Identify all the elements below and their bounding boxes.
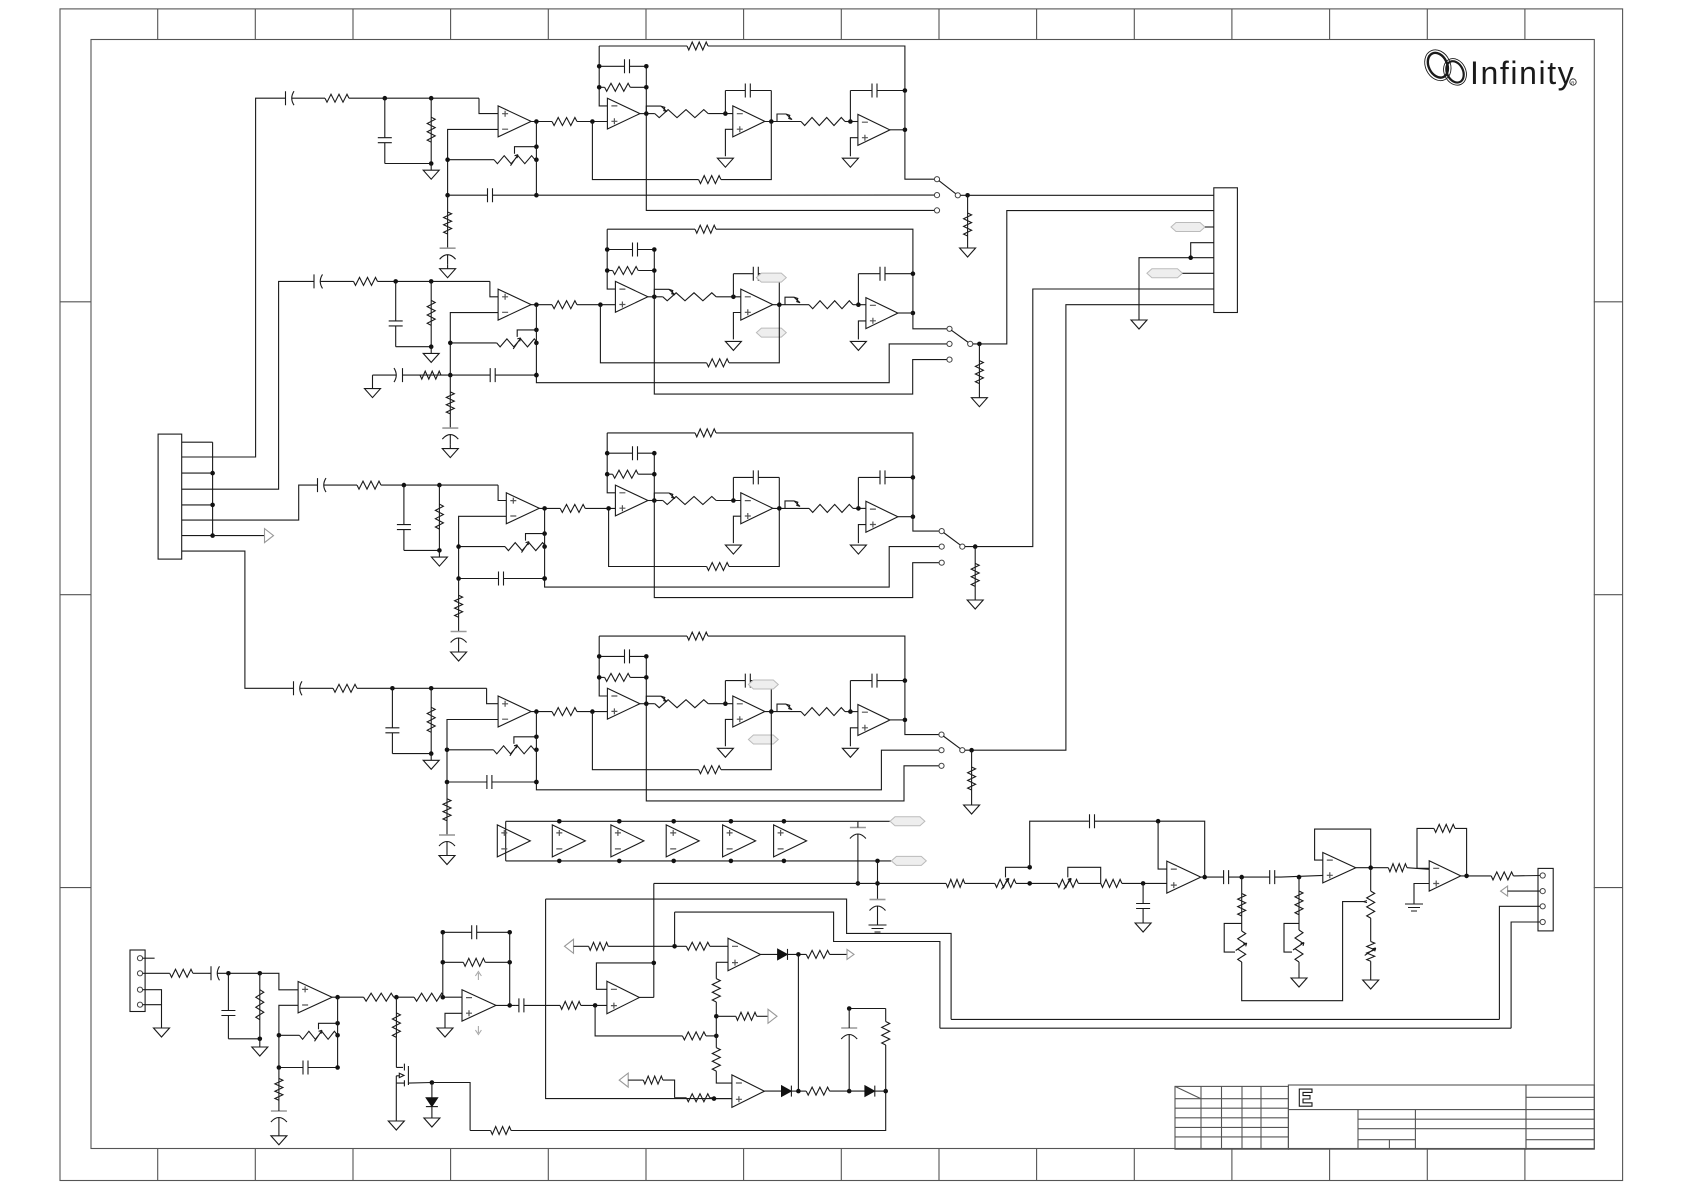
resistor R-B1 series — [414, 993, 444, 1001]
capacitor CB4 polarized — [442, 427, 458, 429]
node C cap row — [542, 576, 547, 581]
wire A1col down — [1242, 902, 1364, 1001]
ground A input RC — [423, 164, 439, 180]
ground B chain — [442, 444, 458, 458]
wire A op-amp2 fb res r — [630, 86, 646, 88]
node bottom corner — [883, 1089, 888, 1094]
capacitor CB7 op-amp4 fb — [858, 267, 913, 281]
wire A R10 lead — [782, 121, 801, 123]
wire C lower fb — [609, 508, 707, 566]
capacitor C-E2 shunt — [1136, 883, 1150, 919]
wire bottom rail left — [470, 1130, 491, 1132]
capacitor CB3 feedback — [450, 368, 536, 382]
wire B fb res leads — [443, 961, 464, 963]
wire B mid throw feed — [536, 344, 947, 383]
wire E out 3 — [1281, 875, 1323, 877]
wire C5 to C1 — [710, 945, 728, 947]
ground C input RC — [431, 550, 447, 566]
ground A chain — [440, 264, 456, 278]
junction J2 pin4-5 — [1188, 255, 1193, 260]
wire A chain — [447, 195, 449, 248]
op-amp UA3 — [733, 106, 765, 137]
wire diode leads — [431, 1083, 433, 1098]
wire channel D input feed — [182, 551, 292, 688]
wire D bottom throw feed — [646, 704, 939, 801]
op-amp UC2 — [615, 485, 648, 516]
wiper arrow B R10 — [794, 297, 800, 303]
wire Fcol down — [1370, 961, 1372, 976]
ground D chain — [439, 851, 455, 865]
wire C fb trim wiper tap — [526, 534, 545, 541]
wire bias to chain — [706, 1035, 716, 1037]
op-amp U-B — [462, 990, 496, 1021]
wire D lower fb — [592, 712, 698, 770]
wire J4 pin4 — [1511, 922, 1540, 1028]
junction buffer tap cross — [875, 881, 880, 886]
resistor RB11 lower fb — [707, 359, 729, 367]
wire A op-amp4 out — [890, 129, 905, 131]
node F out — [1368, 865, 1373, 870]
capacitor CA2 shunt — [378, 98, 392, 163]
wire B op-amp4 noninv — [858, 321, 866, 340]
wire D to op-amp4 — [845, 711, 858, 713]
node B op-amp4 in — [856, 302, 861, 307]
switch SC throw mid — [939, 544, 944, 549]
wire C8 leads — [675, 1097, 687, 1099]
node B input RC 1 — [393, 279, 398, 284]
connector J1 body — [158, 434, 182, 559]
node D-C2 — [796, 1089, 801, 1094]
node A1 — [1239, 875, 1244, 880]
wiper arrow D R10 — [786, 704, 792, 710]
connector J4 pin 3 — [1540, 904, 1545, 909]
resistor RD12 to ground — [968, 767, 976, 790]
ground B input RC — [423, 347, 439, 363]
wire B op-amp3 out — [773, 304, 790, 306]
wire net912 corner — [674, 912, 676, 946]
wire A lower fb right — [721, 122, 771, 180]
switch SB blade — [951, 330, 968, 342]
wire D op-amp2 out — [640, 703, 646, 705]
wire A op-amp3 out — [765, 121, 782, 123]
wire A top throw feed — [905, 132, 935, 180]
junctions A fb column — [445, 157, 450, 162]
node chain mid — [714, 1034, 719, 1039]
wire G out — [1461, 875, 1491, 877]
node A input RC 2 — [429, 96, 434, 101]
wire A bottom throw feed — [646, 114, 934, 211]
wire C op-amp2 fb res — [607, 473, 612, 475]
resistor RB5 to vcc2 — [446, 392, 454, 414]
wire Fcol mid — [1370, 918, 1372, 941]
wire A lower fb — [592, 122, 698, 180]
ground A switch — [960, 248, 976, 257]
wire J1 pin 5 — [182, 504, 213, 506]
wire B global fb top left — [607, 228, 695, 230]
junctions A fb — [277, 1033, 282, 1038]
wire B common out — [973, 211, 1214, 344]
earth ground G — [1405, 900, 1423, 911]
wire B bottom throw feed — [654, 297, 947, 394]
wire B noninv — [445, 1013, 462, 1024]
port arrow ref2 — [619, 1073, 628, 1087]
resistor RB1 input series — [354, 277, 378, 285]
wire in RC bottom — [228, 1038, 259, 1040]
node D-C3 in — [847, 1089, 852, 1094]
wire D op-amp2 out lead — [646, 703, 655, 705]
capacitor C-B2 output — [515, 998, 531, 1012]
wire A op-amp3 fb right — [770, 91, 772, 122]
connector J3 pin 4 — [137, 1002, 142, 1007]
junctions A op-amp2 fb — [597, 64, 602, 69]
wiper arrow A R10 — [786, 114, 792, 120]
wire B op-amp2 inv — [607, 229, 615, 289]
resistor R-C3 tap — [736, 1012, 757, 1020]
capacitor CD7 op-amp4 fb — [850, 674, 905, 688]
wire C op-amp1 inv input — [459, 516, 507, 578]
junctions D op-amp2 fb — [597, 654, 602, 659]
wire C chain — [458, 579, 460, 632]
wire J2 pin5 — [1139, 258, 1214, 316]
wire input row D — [310, 687, 333, 689]
wire diode to gnd — [431, 1107, 433, 1114]
wire J3 pin2 out — [143, 972, 170, 974]
ground C switch — [967, 600, 983, 609]
op-amp U-F — [1323, 853, 1356, 883]
wire D op-amp1 output — [531, 711, 552, 713]
wire B fb trim wiper tap — [517, 330, 536, 337]
wiper arrow C R8 — [669, 493, 675, 499]
wire input row D to node — [357, 687, 487, 689]
wire B fb trim left — [450, 342, 496, 344]
wire C op-amp2 out lead — [654, 500, 663, 502]
resistor R-Fcol — [1367, 891, 1375, 918]
wire C op-amp2 inv — [607, 433, 615, 493]
node E in — [1141, 881, 1146, 886]
wire E fb right — [1158, 821, 1205, 877]
junctions D op-amp4 — [903, 678, 908, 683]
wire in shunt res — [259, 973, 261, 1039]
wire A global fb top right — [708, 46, 905, 91]
wire B to op-amp1 — [490, 281, 498, 296]
wire A fb trim wiper tap — [515, 147, 537, 154]
wiper arrow R-Fcol — [1364, 901, 1368, 903]
junctions buffer top rail — [557, 819, 562, 824]
resistor R-C4 — [589, 942, 609, 950]
resistor RD7 global fb — [687, 632, 708, 640]
wire D lower fb right — [721, 712, 771, 770]
resistor RB6 op-amp2 fb — [613, 267, 639, 275]
wire B op-amp3 fb left — [732, 274, 734, 297]
resistor R-A3 — [275, 1078, 283, 1100]
resistor R-A2col — [1295, 891, 1303, 915]
wire C op-amp4 noninv — [858, 525, 866, 544]
wire C to op-amp4 — [853, 507, 866, 509]
wire channel B input feed — [182, 281, 313, 489]
trimmer RA4 op-amp1 feedback — [494, 155, 535, 166]
wire B fb trim jog — [536, 342, 537, 344]
wire in to op-amp A — [260, 973, 298, 990]
net label B pill upper — [756, 273, 786, 282]
wire E2 to E3 — [1016, 882, 1057, 884]
capacitor CD3 feedback — [447, 775, 536, 789]
resistor R-C9 — [806, 1087, 829, 1095]
capacitor CA1 input coupling — [284, 91, 302, 105]
resistor RB10 series — [809, 301, 853, 309]
ground B noninv — [437, 1024, 453, 1037]
capacitor CA7 op-amp4 fb — [850, 84, 905, 98]
wire G fb left — [1417, 828, 1434, 868]
junction B common — [977, 342, 982, 347]
switch SD blade — [943, 736, 960, 749]
wire D fb trim left — [447, 749, 493, 751]
connector J2 body — [1214, 188, 1238, 313]
wire D RC bottom — [392, 753, 431, 755]
net label buffer bottom — [891, 856, 926, 865]
trimmer R-E2 — [995, 878, 1016, 889]
wire ref rail 912 — [675, 912, 940, 1028]
connector J3 pin 3 — [137, 987, 142, 992]
wire C op-amp3 fb right — [778, 477, 780, 508]
resistor RA1 input series — [325, 94, 349, 102]
wire D op-amp4 noninv — [850, 728, 858, 747]
diode D-C3 — [865, 1086, 875, 1097]
capacitor CD6 op-amp3 fb — [725, 674, 771, 688]
port arrow J4 pin2 — [1501, 886, 1508, 896]
resistor RB2 shunt — [427, 300, 435, 325]
capacitor C-B1 fb — [443, 925, 510, 939]
wire C shunt res lead — [438, 485, 440, 550]
node B input RC 2 — [429, 279, 434, 284]
net label J2 pin3 — [1171, 223, 1205, 232]
wire A op-amp1 output — [531, 121, 552, 123]
connector J4 body — [1538, 868, 1553, 931]
junction peak left — [847, 1006, 852, 1011]
resistor RD5 to vcc2 — [443, 799, 451, 821]
capacitor CD1 input coupling — [292, 681, 310, 695]
wire B op-amp2 out jog — [654, 289, 669, 297]
wire C op-amp3 noninv — [733, 516, 740, 543]
node A cap row — [534, 193, 539, 198]
junctions C op-amp2 fb — [605, 451, 610, 456]
wire A2 trim loop — [1284, 923, 1299, 952]
capacitor CC7 op-amp4 fb — [858, 470, 913, 484]
wire ref1 to corner — [608, 945, 686, 947]
wire A shunt res lead — [430, 98, 432, 163]
node E out — [1202, 875, 1207, 880]
wire channel C input feed — [182, 485, 316, 520]
resistor R-G1 fb — [1434, 824, 1455, 832]
earth ground ref — [869, 921, 887, 932]
wire C fb trim left — [459, 546, 505, 548]
wire A op-amp3 noninv — [725, 129, 732, 156]
wire C op-amp2 out — [648, 500, 654, 502]
wire A to op-amp1 — [479, 98, 498, 113]
wire C res leads — [974, 547, 976, 600]
wire A1 trim loop — [1224, 923, 1242, 952]
node C op-amp2 out — [652, 498, 657, 503]
junctions C op-amp4 — [911, 475, 916, 480]
wire D fb trim wiper tap — [514, 737, 537, 744]
op-amp UD3 — [733, 696, 765, 727]
wire G to J4 — [1513, 875, 1540, 877]
connector J3 body — [130, 950, 145, 1012]
node chain tap — [714, 1014, 719, 1019]
wire bottom rail long — [511, 1091, 886, 1130]
wire buffer bottom rail — [506, 860, 892, 862]
op-amp U-buf6 — [774, 825, 807, 857]
resistor R-C8 — [686, 1094, 710, 1102]
op-amp U-A — [298, 982, 332, 1013]
wire ref2 lead — [628, 1079, 643, 1081]
node A op-amp4 in — [848, 119, 853, 124]
resistor R-D2 bias — [682, 1032, 706, 1040]
capacitor C-in1 — [208, 966, 228, 980]
capacitor CA3 feedback — [448, 188, 537, 202]
resistor R-A1col — [1238, 894, 1246, 917]
wire A op-amp2 fb right — [645, 66, 647, 113]
wire peak right vert2 — [885, 1045, 887, 1091]
wire peak right vert — [885, 1009, 887, 1022]
resistor RC3 series — [560, 504, 585, 512]
wire B RC bottom — [396, 346, 432, 348]
wire J4 pin3 — [1499, 906, 1540, 1019]
resistor RB3 series — [552, 301, 577, 309]
op-amp U-G — [1429, 861, 1461, 891]
junction A RC bottom — [429, 161, 434, 166]
wiper arrow D R8 — [661, 696, 667, 702]
wire B R10 lead — [790, 304, 809, 306]
op-amp UA1 — [498, 106, 531, 137]
net label D pill upper — [748, 680, 778, 689]
wire chain mid — [715, 1002, 717, 1048]
ground J2 — [1131, 316, 1147, 329]
wire D-C3 out — [875, 1090, 886, 1092]
wire buffer bottom tap down — [877, 861, 879, 899]
node D op-amp3 out — [769, 709, 774, 714]
wire V1 down — [395, 997, 397, 1037]
op-amp U-buf5 — [723, 825, 756, 857]
node D op-amp1 out — [534, 709, 539, 714]
wire B to op-amp4 — [853, 304, 866, 306]
op-amp UD4 — [858, 705, 890, 736]
node B cap row left — [448, 373, 453, 378]
capacitor CB8 aux — [391, 368, 412, 382]
wire C op-amp2 fb right — [653, 453, 655, 500]
wire to op-amp B — [444, 996, 462, 998]
resistor R-in1 — [170, 969, 193, 977]
ground C op-amp3 — [725, 545, 741, 554]
node A op-amp3 out — [769, 119, 774, 124]
node V1 — [394, 995, 399, 1000]
diode D-Q1 clamp — [426, 1098, 438, 1107]
switch SC common — [960, 544, 965, 549]
wire C op-amp3 out — [773, 507, 790, 509]
wire ref1 lead — [574, 945, 589, 947]
wire D op-amp2 fb res r — [630, 676, 646, 678]
wire B op-amp4 fb right — [912, 274, 914, 313]
switch SA throw bottom — [934, 208, 939, 213]
wire C op-amp3 out jog — [785, 501, 794, 509]
capacitor CC4 polarized — [451, 631, 467, 633]
resistor R-B2 fb — [463, 958, 485, 966]
node D cap row — [534, 780, 539, 785]
junction B RC bottom — [429, 344, 434, 349]
trimmer RD4 op-amp1 feedback — [493, 745, 534, 756]
node C op-amp3 in — [731, 498, 736, 503]
net label J2 pin6 — [1147, 269, 1183, 278]
wire D op-amp3 fb left — [724, 681, 726, 704]
ground A chain — [271, 1131, 287, 1145]
wire F to G — [1407, 868, 1429, 870]
ground A2col — [1291, 974, 1307, 987]
wire B op-amp1 out down — [535, 305, 537, 375]
capacitor CB1 input coupling — [313, 274, 331, 288]
resistor RA3 series — [552, 118, 577, 126]
capacitor CB5 op-amp2 fb — [607, 243, 654, 257]
node A op-amp1 out — [534, 119, 539, 124]
resistor RA8 series — [655, 110, 708, 118]
resistor RA5 to vcc2 — [444, 212, 452, 234]
resistor RD10 series — [801, 708, 845, 716]
wire D res leads — [971, 750, 973, 805]
wire B lower fb right — [729, 305, 779, 363]
junctions A op-amp4 — [903, 88, 908, 93]
resistor RA10 series — [801, 118, 845, 126]
wire C lower fb right — [729, 508, 779, 566]
wire J1 pin 1 — [182, 441, 213, 443]
wire buffer top rail right — [858, 820, 890, 822]
junction C RC bottom — [437, 548, 442, 553]
resistor RB7 global fb — [695, 225, 716, 233]
node A op-amp2 in — [590, 119, 595, 124]
wire buffer left vertical — [505, 821, 507, 861]
wire J4 pin2 — [1508, 890, 1541, 892]
wire C1 plus — [716, 961, 728, 963]
wire peak net top — [849, 1008, 886, 1010]
wire long rail 1019 — [951, 1018, 1499, 1020]
wire A R3 to op-amp2 — [577, 121, 607, 123]
capacitor CB6 op-amp3 fb — [733, 267, 779, 281]
wire A op-amp1 inv input — [448, 129, 499, 195]
wire B op-amp4 out — [898, 312, 913, 314]
node D op-amp2 out — [644, 701, 649, 706]
wire A res leads — [967, 195, 969, 248]
node A op-amp3 in — [723, 111, 728, 116]
ground D switch — [964, 805, 980, 814]
node G out — [1464, 874, 1469, 879]
wire E to opamp — [1122, 882, 1167, 884]
junction D common — [969, 748, 974, 753]
capacitor CC1 input coupling — [316, 478, 334, 492]
wire C RC bottom — [404, 549, 440, 551]
wire A RC bottom — [385, 163, 431, 165]
svg-text:Infinity: Infinity — [1470, 55, 1575, 91]
resistor R-E4 — [1101, 879, 1122, 887]
junction ref line tap — [856, 881, 861, 886]
wire Q1 out — [408, 1082, 432, 1085]
title block — [1175, 1085, 1594, 1149]
connector J4 pin 4 — [1540, 919, 1545, 924]
wire buffer top rail — [506, 820, 858, 822]
node C op-amp1 out — [542, 506, 547, 511]
wire A op-amp3 fb left — [724, 91, 726, 114]
resistor RA12 to ground — [964, 213, 972, 236]
ground in RC — [252, 1039, 268, 1056]
connector J3 pin 1 — [137, 956, 142, 961]
port input arrow J1 — [265, 529, 274, 543]
wire B op-amp3 fb right — [778, 274, 780, 305]
